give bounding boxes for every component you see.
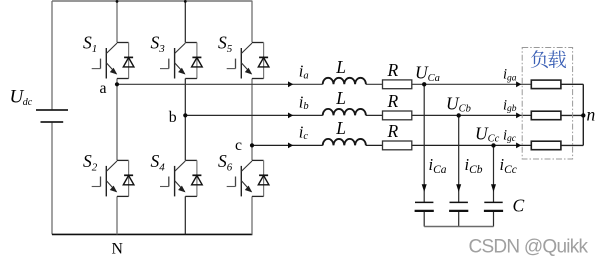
wire: leg3 mid (S5 emitter - node c - S6 collector): [251, 79, 253, 161]
label 负载 (load): [531, 50, 566, 68]
node c junction dot: [250, 143, 254, 147]
wire: capacitor branch a: [423, 84, 425, 226]
wire: load output b to neutral bus: [561, 114, 583, 116]
node UCc junction dot: [491, 143, 495, 147]
junction dot top bus leg1: [116, 0, 119, 3]
wire: capacitor common bus: [424, 226, 493, 228]
wire: phase c line: [252, 144, 531, 146]
load resistor load resistor b: [531, 111, 561, 120]
arrow: current igb: [516, 113, 521, 119]
battery Udc negative plate: [41, 121, 64, 123]
svg-text:N: N: [112, 241, 124, 258]
arrow: current igc: [516, 143, 521, 149]
svg-text:b: b: [169, 109, 177, 126]
wire: capacitor branch b: [458, 115, 460, 226]
svg-text:R: R: [387, 91, 399, 111]
wire: load neutral bus n: [582, 84, 584, 145]
load resistor load resistor a: [531, 80, 561, 89]
wire: phase b line: [185, 114, 531, 116]
node UCa junction dot: [422, 82, 426, 86]
svg-text:CSDN @Quikk: CSDN @Quikk: [469, 236, 589, 257]
resistor Ra: [383, 80, 412, 89]
svg-text:L: L: [335, 88, 346, 108]
node n junction dot: [581, 113, 585, 117]
transistor S2 (IGBT with antiparallel freewheel diode): [92, 160, 134, 196]
transistor S1 (IGBT with antiparallel freewheel diode): [92, 43, 134, 79]
transistor S6 (IGBT with antiparallel freewheel diode): [227, 160, 269, 196]
arrow: current iCa: [422, 184, 427, 192]
svg-text:c: c: [235, 137, 242, 154]
svg-text:a: a: [100, 80, 107, 97]
resistor Rc: [383, 141, 412, 150]
wire: leg2 bottom (S4 emitter to N): [184, 196, 186, 234]
wire: bottom DC bus (net N): [52, 233, 252, 235]
load enclosure (dashed box): [522, 48, 572, 160]
junction dot top bus leg2: [184, 0, 187, 3]
svg-text:n: n: [587, 104, 596, 124]
inductor Lc: [323, 139, 366, 146]
wire: top DC bus: [52, 0, 252, 2]
transistor S4 (IGBT with antiparallel freewheel diode): [160, 160, 202, 196]
svg-text:L: L: [335, 57, 346, 77]
wire: leg3 top (S5 collector): [251, 1, 253, 43]
wire: leg1 mid (S1 emitter - node a - S2 collector): [116, 79, 118, 161]
load resistor load resistor c: [531, 141, 561, 150]
wire: load output c to neutral bus: [561, 144, 583, 146]
battery Udc positive plate: [36, 109, 68, 111]
wire: leg3 bottom (S6 emitter to N): [251, 196, 253, 234]
node b junction dot: [183, 113, 187, 117]
arrow: current iCb: [456, 184, 461, 192]
svg-text:L: L: [335, 118, 346, 138]
capacitor Cb: [449, 202, 468, 211]
svg-text:R: R: [387, 121, 399, 141]
arrow: current iga: [516, 81, 521, 87]
arrow: current ib: [288, 113, 293, 119]
svg-text:C: C: [513, 195, 525, 215]
inductor La: [323, 78, 366, 85]
svg-text:R: R: [387, 60, 399, 80]
wire: capacitor branch c: [493, 145, 495, 226]
wire: load output a to neutral bus: [561, 83, 583, 85]
arrow: current ic: [288, 143, 293, 149]
wire: leg1 bottom (S2 emitter to N): [116, 196, 118, 234]
wire: leg1 top (S1 collector): [116, 1, 118, 43]
capacitor Cc: [484, 202, 503, 211]
arrow: current ia: [288, 81, 293, 87]
transistor S5 (IGBT with antiparallel freewheel diode): [227, 43, 269, 79]
wire: leg2 top (S3 collector): [184, 1, 186, 43]
wire: phase a line: [117, 83, 531, 85]
resistor Rb: [383, 111, 412, 120]
capacitor Ca: [415, 202, 434, 211]
node a junction dot: [115, 82, 119, 86]
transistor S3 (IGBT with antiparallel freewheel diode): [160, 43, 202, 79]
wire: left rail upper (Udc +): [51, 1, 53, 110]
node UCb junction dot: [457, 113, 461, 117]
wire: left rail lower (Udc -): [51, 122, 53, 234]
inductor Lb: [323, 109, 366, 115]
wire: leg2 mid (S3 emitter - node b - S4 collector): [184, 79, 186, 161]
arrow: current iCc: [491, 184, 496, 192]
